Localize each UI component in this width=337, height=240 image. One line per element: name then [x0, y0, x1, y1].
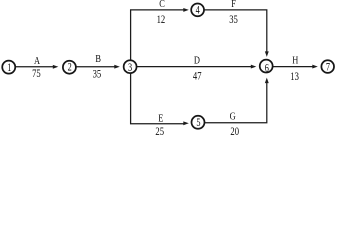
wire 1-2 activity A: [15, 66, 54, 68]
node 2 circle: [63, 61, 76, 74]
svg-text:D: D: [194, 56, 200, 67]
svg-text:6: 6: [265, 62, 269, 75]
arrowhead into node 4: [183, 8, 189, 12]
svg-text:5: 5: [196, 117, 200, 130]
node 5 circle: [192, 116, 205, 129]
svg-text:20: 20: [230, 126, 239, 137]
wire node3 down: [131, 74, 185, 124]
svg-text:B: B: [95, 54, 101, 65]
svg-text:12: 12: [157, 14, 166, 26]
arrowhead into node 6 left: [251, 65, 256, 69]
svg-text:47: 47: [193, 70, 202, 82]
wire 2-3 activity B: [76, 66, 116, 68]
svg-text:F: F: [231, 0, 236, 10]
wire bottom rail right G: [205, 82, 267, 123]
svg-text:4: 4: [196, 4, 200, 17]
wire node3 up: [131, 10, 185, 60]
arrowhead into node 7: [312, 65, 318, 69]
node 4 circle: [191, 3, 204, 16]
wire 6-7 activity H: [273, 66, 314, 68]
svg-text:35: 35: [229, 14, 238, 26]
svg-text:75: 75: [32, 68, 41, 80]
svg-text:35: 35: [93, 68, 102, 80]
svg-text:C: C: [159, 0, 165, 10]
wire top rail right F: [204, 10, 267, 52]
svg-text:H: H: [292, 56, 298, 67]
svg-text:G: G: [230, 112, 236, 123]
arrowhead into node 3: [114, 65, 120, 69]
arrowhead into node 6 bottom: [265, 78, 269, 84]
node 7 circle: [321, 60, 334, 73]
svg-text:1: 1: [7, 62, 11, 75]
arrowhead into node 6 top: [265, 51, 269, 57]
node 6 circle: [260, 60, 273, 73]
svg-text:7: 7: [326, 61, 330, 74]
node 3 circle: [124, 60, 137, 73]
svg-text:E: E: [158, 114, 163, 125]
arrowhead into node 2: [53, 65, 59, 69]
arrowhead into node 5: [183, 121, 189, 125]
svg-text:3: 3: [128, 62, 132, 75]
svg-text:A: A: [34, 56, 40, 67]
svg-text:25: 25: [155, 126, 164, 137]
svg-text:2: 2: [68, 61, 72, 74]
wire 3-6 activity D: [137, 66, 253, 68]
svg-text:13: 13: [290, 71, 299, 83]
node 1 circle: [2, 61, 15, 74]
